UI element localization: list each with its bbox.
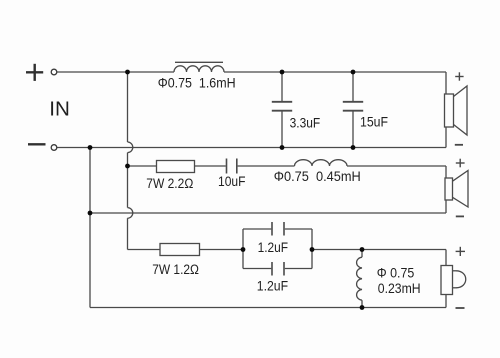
svg-text:7W 2.2Ω: 7W 2.2Ω bbox=[146, 176, 193, 191]
svg-text:IN: IN bbox=[49, 98, 70, 121]
svg-text:Φ 0.75: Φ 0.75 bbox=[377, 266, 415, 281]
svg-text:10uF: 10uF bbox=[218, 174, 246, 189]
svg-text:3.3uF: 3.3uF bbox=[290, 115, 321, 130]
svg-text:7W 1.2Ω: 7W 1.2Ω bbox=[152, 262, 199, 277]
svg-text:Φ0.75 1.6mH: Φ0.75 1.6mH bbox=[158, 75, 236, 90]
svg-text:15uF: 15uF bbox=[360, 115, 388, 130]
svg-text:1.2uF: 1.2uF bbox=[258, 240, 289, 255]
svg-text:Φ0.75 0.45mH: Φ0.75 0.45mH bbox=[274, 169, 361, 184]
svg-text:1.2uF: 1.2uF bbox=[257, 278, 288, 293]
svg-text:0.23mH: 0.23mH bbox=[378, 281, 421, 296]
